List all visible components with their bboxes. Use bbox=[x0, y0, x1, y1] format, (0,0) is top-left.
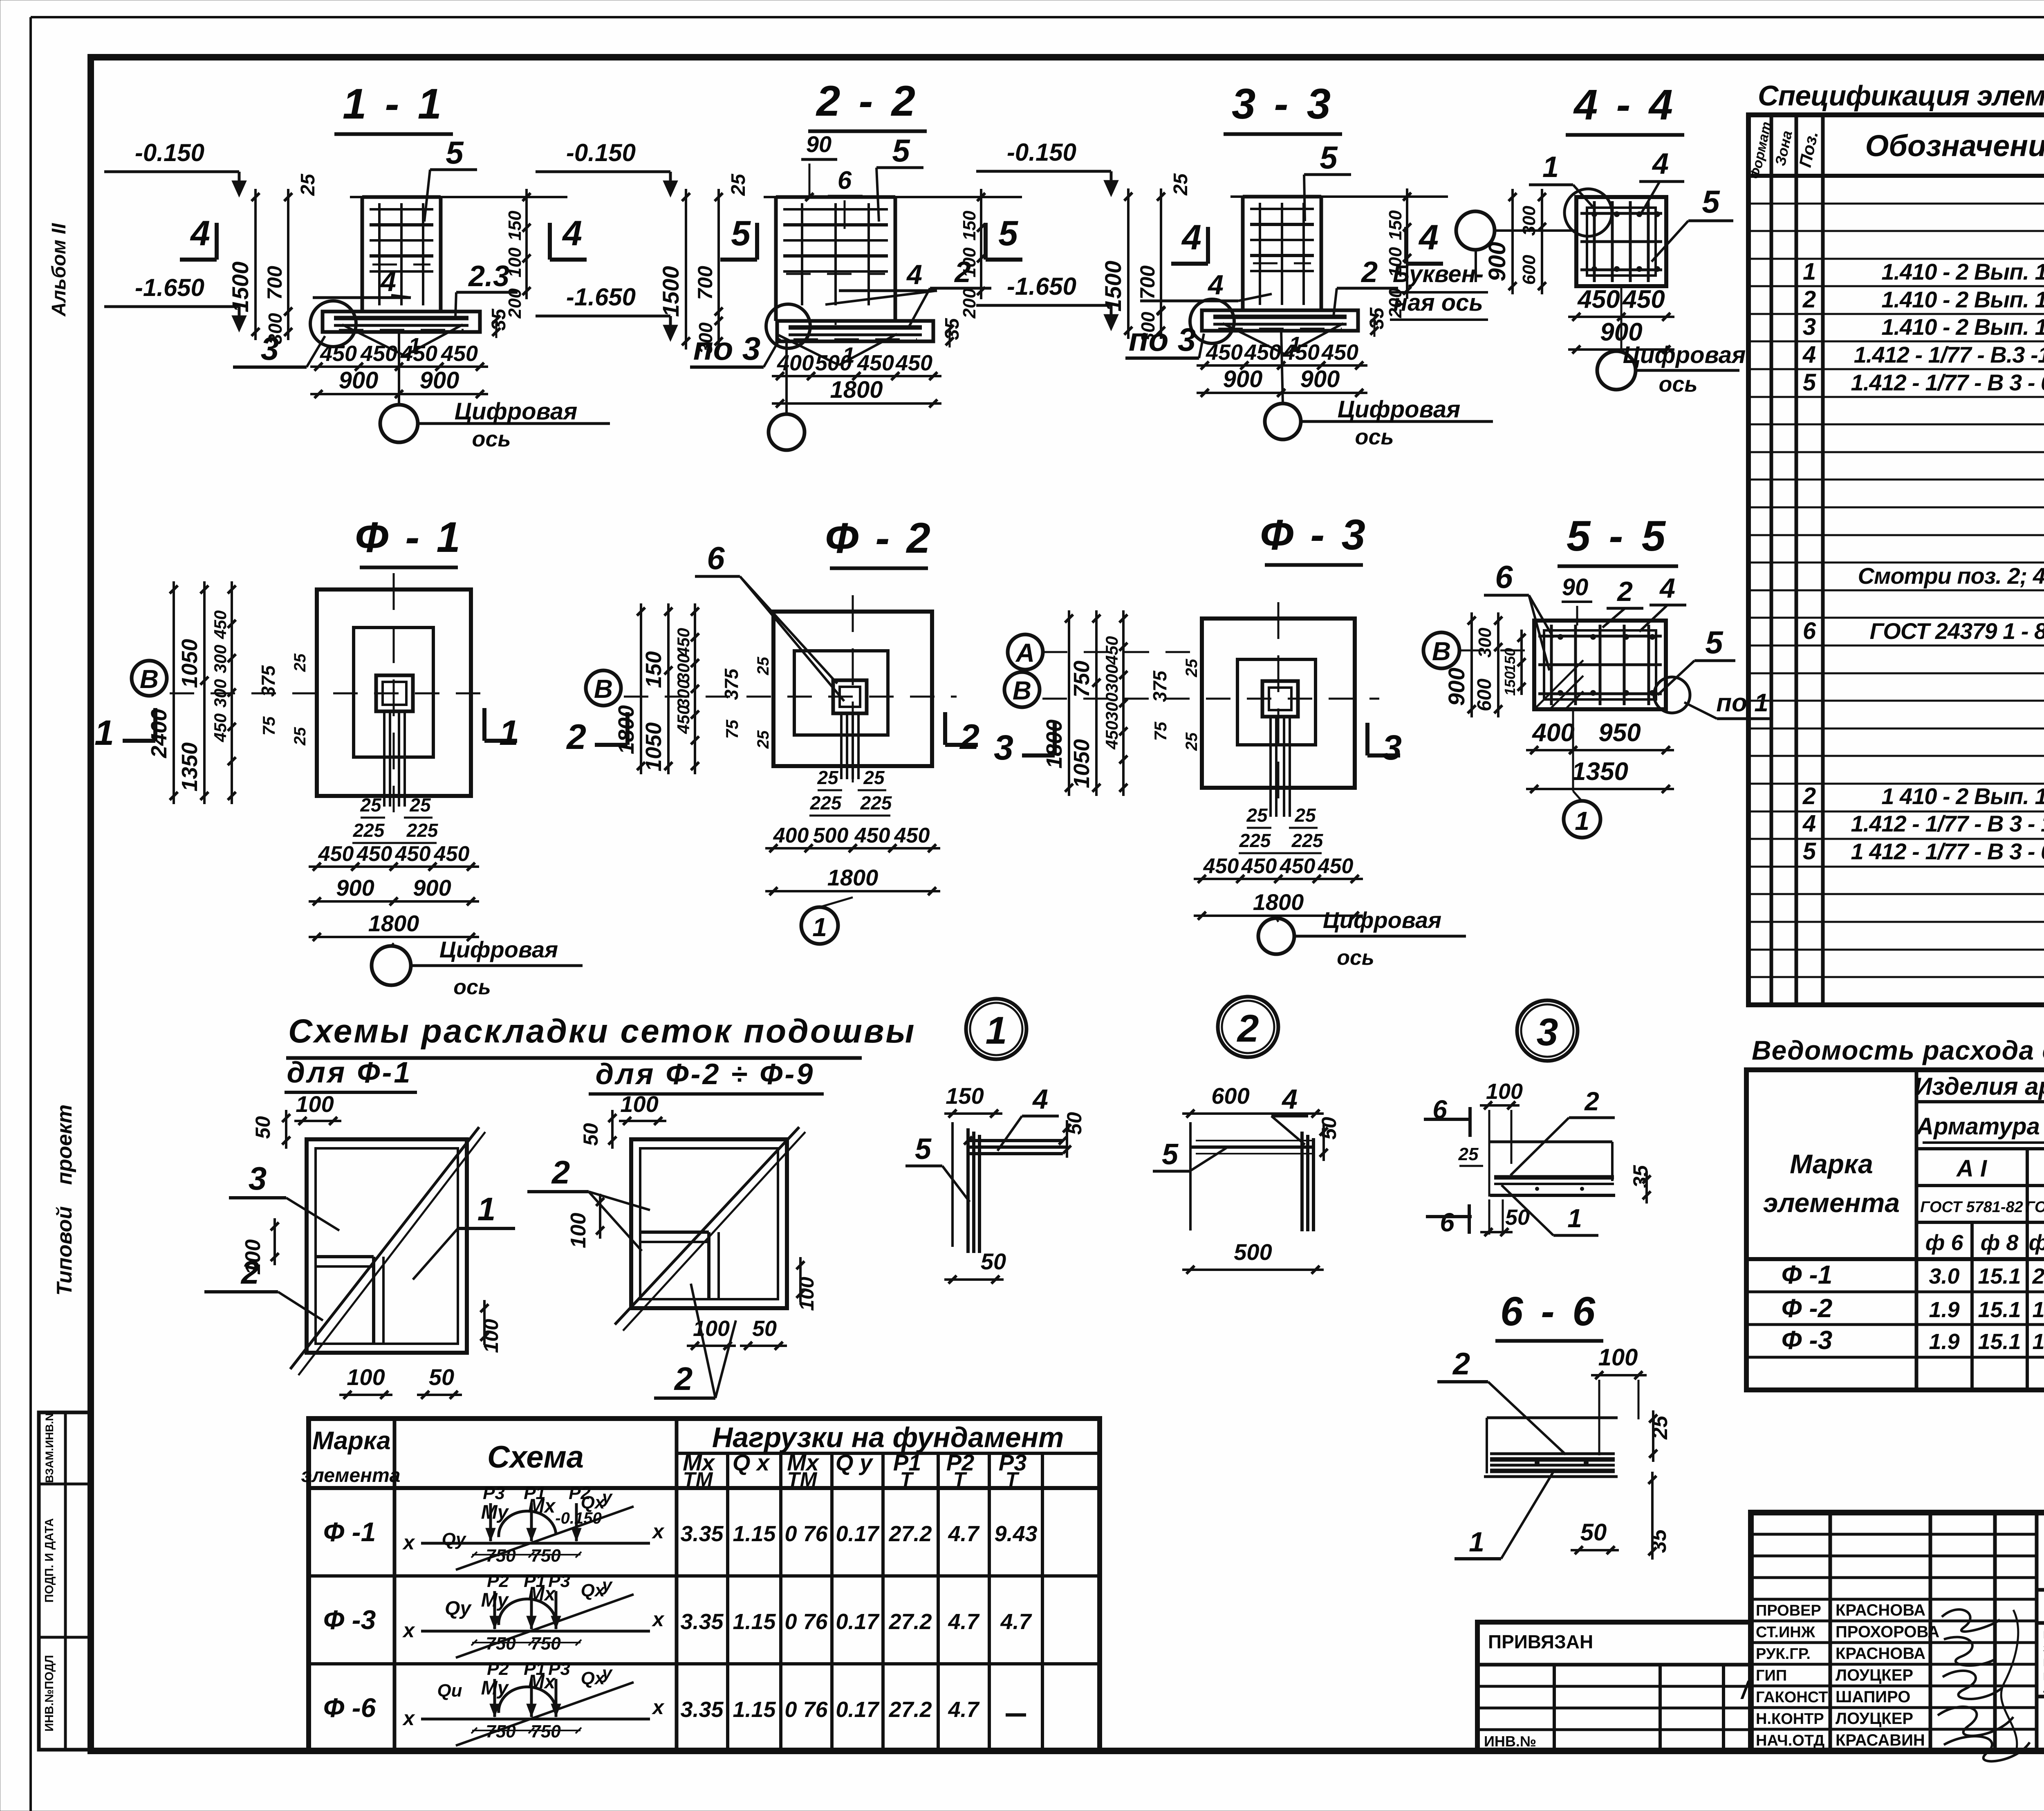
svg-text:900: 900 bbox=[1484, 242, 1511, 282]
svg-text:-1.650: -1.650 bbox=[1007, 273, 1076, 300]
svg-text:по 3: по 3 bbox=[1129, 321, 1196, 358]
svg-text:150: 150 bbox=[959, 211, 979, 241]
svg-text:x: x bbox=[402, 1707, 415, 1730]
heading: mesh layout schemes bbox=[285, 1013, 916, 1094]
svg-text:950: 950 bbox=[1598, 719, 1641, 747]
svg-text:50: 50 bbox=[579, 1123, 602, 1146]
svg-text:СТ.ИНЖ: СТ.ИНЖ bbox=[1756, 1624, 1815, 1641]
svg-text:50: 50 bbox=[752, 1316, 777, 1341]
svg-text:450: 450 bbox=[356, 842, 392, 866]
svg-text:P3: P3 bbox=[483, 1483, 505, 1503]
svg-text:ТМ: ТМ bbox=[787, 1468, 818, 1491]
steel table data rows bbox=[1782, 1260, 2044, 1355]
svg-text:0 76: 0 76 bbox=[784, 1609, 828, 1634]
svg-text:2: 2 bbox=[1360, 256, 1378, 289]
svg-text:375: 375 bbox=[721, 668, 742, 700]
svg-text:2: 2 bbox=[959, 717, 979, 757]
svg-text:90: 90 bbox=[1562, 574, 1589, 601]
detail 3 drawing bbox=[1424, 1079, 1652, 1237]
section view 5-5 (footing cage plan) bbox=[1423, 512, 1770, 838]
svg-text:4: 4 bbox=[190, 214, 210, 253]
svg-text:x: x bbox=[651, 1520, 665, 1543]
svg-text:А I: А I bbox=[1956, 1155, 1988, 1182]
svg-text:1 - 1: 1 - 1 bbox=[343, 80, 445, 128]
svg-text:6 - 6: 6 - 6 bbox=[1500, 1289, 1598, 1334]
svg-text:ось: ось bbox=[453, 975, 491, 999]
svg-text:300: 300 bbox=[211, 679, 230, 708]
svg-text:3.35: 3.35 bbox=[680, 1522, 724, 1546]
svg-text:x: x bbox=[402, 1619, 415, 1642]
svg-text:300: 300 bbox=[1102, 693, 1121, 721]
svg-text:5: 5 bbox=[446, 134, 464, 170]
svg-text:x: x bbox=[651, 1696, 665, 1719]
svg-text:ГОСТ 5781-82: ГОСТ 5781-82 bbox=[1920, 1199, 2023, 1216]
svg-text:375: 375 bbox=[258, 665, 279, 697]
svg-text:4: 4 bbox=[1652, 148, 1669, 180]
svg-text:6: 6 bbox=[1803, 618, 1816, 644]
svg-text:Буквен-: Буквен- bbox=[1393, 261, 1484, 287]
svg-text:My: My bbox=[481, 1677, 509, 1699]
svg-text:300: 300 bbox=[674, 679, 693, 708]
detail circle 3 bbox=[1517, 1000, 1578, 1061]
svg-text:4: 4 bbox=[1802, 341, 1816, 368]
svg-text:2: 2 bbox=[1802, 286, 1816, 313]
svg-text:1: 1 bbox=[1567, 1204, 1582, 1233]
svg-text:400: 400 bbox=[1531, 719, 1574, 747]
svg-text:100: 100 bbox=[620, 1091, 658, 1117]
title block outer bbox=[1751, 1513, 2044, 1751]
svg-text:5: 5 bbox=[1320, 139, 1338, 175]
svg-text:1: 1 bbox=[499, 713, 519, 753]
svg-text:100: 100 bbox=[296, 1091, 334, 1117]
detail 2 drawing bbox=[1153, 1083, 1340, 1274]
svg-text:15.1: 15.1 bbox=[1978, 1329, 2021, 1354]
svg-text:5 - 5: 5 - 5 bbox=[1567, 512, 1669, 560]
svg-text:Изделия арматурные: Изделия арматурные bbox=[1914, 1073, 2044, 1100]
svg-text:750: 750 bbox=[486, 1721, 516, 1742]
spec table rows bbox=[1802, 202, 2044, 947]
svg-text:600: 600 bbox=[1519, 255, 1539, 285]
svg-text:2: 2 bbox=[954, 256, 971, 289]
svg-text:4: 4 bbox=[562, 214, 582, 253]
svg-text:4: 4 bbox=[1281, 1084, 1298, 1115]
svg-text:1050: 1050 bbox=[641, 722, 666, 771]
svg-text:ось: ось bbox=[1337, 946, 1374, 970]
svg-text:1800: 1800 bbox=[827, 865, 879, 890]
svg-text:ГАКОНСТ: ГАКОНСТ bbox=[1756, 1689, 1828, 1706]
svg-text:y: y bbox=[601, 1663, 613, 1683]
svg-text:1.412 - 1/77 - В 3 - 020: 1.412 - 1/77 - В 3 - 020 bbox=[1851, 370, 2044, 395]
svg-text:1: 1 bbox=[986, 1009, 1007, 1052]
svg-text:А: А bbox=[1015, 638, 1035, 668]
svg-text:по 3: по 3 bbox=[693, 330, 760, 367]
svg-text:Ведомость расхода стали на: Ведомость расхода стали на элемент, кг bbox=[1752, 1035, 2044, 1065]
svg-text:10.8: 10.8 bbox=[2032, 1298, 2044, 1322]
svg-text:450: 450 bbox=[434, 842, 470, 866]
svg-text:35: 35 bbox=[1647, 1529, 1671, 1553]
svg-text:2: 2 bbox=[240, 1254, 260, 1291]
section view 2-2 bbox=[536, 77, 1022, 450]
svg-text:1800: 1800 bbox=[368, 910, 419, 936]
title block right cells bbox=[2037, 1590, 2044, 1751]
svg-text:225: 225 bbox=[810, 792, 842, 814]
svg-text:400: 400 bbox=[777, 351, 814, 375]
svg-text:450: 450 bbox=[318, 842, 354, 866]
svg-text:100: 100 bbox=[1598, 1344, 1638, 1371]
svg-text:25: 25 bbox=[297, 173, 319, 196]
svg-text:ф 6: ф 6 bbox=[1925, 1230, 1964, 1255]
svg-text:ЛОУЦКЕР: ЛОУЦКЕР bbox=[1836, 1710, 1913, 1728]
svg-text:5: 5 bbox=[731, 214, 751, 253]
svg-text:9.43: 9.43 bbox=[994, 1522, 1037, 1546]
svg-text:Q y: Q y bbox=[836, 1450, 874, 1475]
svg-text:27.2: 27.2 bbox=[888, 1522, 932, 1546]
svg-text:ИНВ.№: ИНВ.№ bbox=[1484, 1733, 1536, 1750]
svg-text:0.17: 0.17 bbox=[836, 1609, 880, 1634]
svg-text:450: 450 bbox=[1102, 636, 1121, 665]
signatures squiggle bbox=[1938, 1609, 2030, 1761]
svg-text:300: 300 bbox=[1475, 628, 1495, 658]
svg-text:Т: Т bbox=[953, 1468, 968, 1491]
svg-text:ТМ: ТМ bbox=[683, 1468, 713, 1491]
svg-text:3: 3 bbox=[261, 330, 279, 367]
svg-text:450: 450 bbox=[1318, 854, 1354, 878]
svg-text:Mx: Mx bbox=[528, 1583, 556, 1605]
svg-text:10 8: 10 8 bbox=[2032, 1329, 2044, 1354]
svg-text:Арматура класса: Арматура класса bbox=[1916, 1113, 2044, 1140]
svg-text:450: 450 bbox=[674, 705, 693, 734]
svg-text:500: 500 bbox=[815, 351, 852, 375]
svg-text:Т: Т bbox=[1006, 1468, 1020, 1491]
svg-text:1050: 1050 bbox=[1069, 739, 1094, 788]
svg-text:600: 600 bbox=[1211, 1083, 1249, 1109]
section view 3-3 bbox=[976, 80, 1493, 449]
svg-text:900: 900 bbox=[1300, 366, 1340, 392]
svg-text:450: 450 bbox=[1206, 340, 1243, 365]
svg-text:My: My bbox=[481, 1589, 509, 1611]
svg-text:2: 2 bbox=[566, 717, 586, 757]
svg-text:6: 6 bbox=[1440, 1208, 1455, 1237]
svg-text:для Ф-2 ÷ Ф-9: для Ф-2 ÷ Ф-9 bbox=[596, 1058, 815, 1091]
spec table grid bbox=[1748, 115, 2044, 1005]
svg-text:3: 3 bbox=[249, 1160, 267, 1197]
svg-text:по 1: по 1 bbox=[1716, 689, 1768, 717]
plan view F-2 bbox=[566, 514, 979, 944]
svg-text:6: 6 bbox=[707, 540, 725, 576]
svg-text:y: y bbox=[601, 1575, 613, 1595]
leader 6 to F-2 bolts bbox=[695, 540, 844, 701]
title block staff grid bbox=[1751, 1513, 2037, 1751]
svg-text:700: 700 bbox=[694, 266, 717, 300]
svg-text:2 - 2: 2 - 2 bbox=[816, 77, 919, 125]
svg-text:3 - 3: 3 - 3 bbox=[1232, 80, 1334, 128]
svg-text:450: 450 bbox=[1577, 285, 1620, 314]
svg-text:1.15: 1.15 bbox=[733, 1697, 776, 1722]
svg-text:5: 5 bbox=[1803, 369, 1816, 396]
svg-text:Марка: Марка bbox=[1790, 1149, 1873, 1179]
svg-text:КРАСАВИН: КРАСАВИН bbox=[1836, 1731, 1925, 1749]
title block texts bbox=[2043, 1533, 2044, 1750]
svg-text:1.410 - 2 Вып. 1: 1.410 - 2 Вып. 1 bbox=[1881, 259, 2044, 285]
svg-text:1: 1 bbox=[1803, 258, 1816, 285]
svg-text:4: 4 bbox=[380, 266, 396, 297]
svg-text:НАЧ.ОТД: НАЧ.ОТД bbox=[1756, 1732, 1824, 1749]
svg-text:25: 25 bbox=[291, 727, 309, 746]
svg-text:ВЗАМ.ИНВ.N: ВЗАМ.ИНВ.N bbox=[43, 1413, 56, 1483]
svg-text:1350: 1350 bbox=[1572, 758, 1628, 786]
svg-text:1: 1 bbox=[812, 912, 827, 942]
svg-text:75: 75 bbox=[722, 719, 742, 739]
svg-text:15.1: 15.1 bbox=[1978, 1298, 2021, 1322]
svg-text:My: My bbox=[481, 1502, 509, 1523]
svg-text:27.2: 27.2 bbox=[888, 1697, 932, 1722]
svg-text:Ф -1: Ф -1 bbox=[1782, 1260, 1833, 1289]
svg-text:150: 150 bbox=[641, 651, 666, 688]
svg-text:Схема: Схема bbox=[487, 1440, 584, 1475]
svg-text:0.17: 0.17 bbox=[836, 1697, 880, 1722]
svg-text:225: 225 bbox=[406, 820, 439, 841]
svg-text:Ф -3: Ф -3 bbox=[323, 1605, 376, 1635]
svg-text:ф 10: ф 10 bbox=[2029, 1230, 2044, 1255]
svg-text:-0.150: -0.150 bbox=[566, 139, 636, 166]
svg-text:ПРИВЯЗАН: ПРИВЯЗАН bbox=[1488, 1631, 1593, 1652]
svg-text:Нагрузки на фундамент: Нагрузки на фундамент bbox=[712, 1421, 1064, 1453]
svg-text:1.9: 1.9 bbox=[1929, 1329, 1959, 1354]
section view 1-1 bbox=[104, 80, 610, 451]
svg-text:Ф - 2: Ф - 2 bbox=[825, 514, 933, 562]
svg-text:4: 4 bbox=[1802, 810, 1816, 837]
svg-text:В: В bbox=[594, 674, 613, 704]
svg-text:ось: ось bbox=[472, 427, 511, 451]
svg-text:2.3: 2.3 bbox=[468, 260, 509, 293]
svg-text:25: 25 bbox=[1183, 732, 1201, 751]
svg-text:1500: 1500 bbox=[1100, 261, 1126, 312]
svg-text:100: 100 bbox=[1486, 1079, 1523, 1104]
svg-text:50: 50 bbox=[251, 1116, 274, 1139]
svg-text:ПРОВЕР: ПРОВЕР bbox=[1756, 1602, 1821, 1619]
svg-text:150: 150 bbox=[1385, 210, 1405, 240]
svg-text:750: 750 bbox=[531, 1634, 561, 1654]
svg-text:Mx: Mx bbox=[528, 1671, 556, 1693]
svg-text:750: 750 bbox=[531, 1721, 561, 1742]
svg-text:4: 4 bbox=[1181, 218, 1201, 257]
svg-text:450: 450 bbox=[1280, 854, 1316, 878]
svg-text:25: 25 bbox=[1294, 805, 1316, 826]
svg-text:150: 150 bbox=[946, 1083, 984, 1109]
svg-text:-0.150: -0.150 bbox=[1007, 139, 1076, 166]
svg-text:ось: ось bbox=[1355, 425, 1394, 449]
svg-text:200: 200 bbox=[959, 288, 979, 319]
svg-text:450: 450 bbox=[1321, 340, 1358, 365]
svg-text:375: 375 bbox=[1149, 670, 1170, 702]
svg-text:5: 5 bbox=[1162, 1138, 1179, 1171]
svg-text:Альбом II: Альбом II bbox=[48, 223, 70, 317]
svg-text:1050: 1050 bbox=[177, 639, 202, 688]
svg-text:ЛОУЦКЕР: ЛОУЦКЕР bbox=[1836, 1666, 1913, 1684]
svg-text:5: 5 bbox=[998, 214, 1018, 253]
svg-text:150: 150 bbox=[505, 211, 525, 241]
spec table header text bbox=[1747, 120, 2044, 180]
svg-text:3.35: 3.35 bbox=[680, 1697, 724, 1722]
svg-text:Цифровая: Цифровая bbox=[1338, 396, 1461, 423]
svg-text:ось: ось bbox=[1659, 372, 1697, 397]
svg-text:450: 450 bbox=[854, 824, 890, 847]
svg-text:Qy: Qy bbox=[445, 1598, 472, 1619]
svg-text:2: 2 bbox=[1802, 783, 1816, 809]
labels 90 and 6 on view 2-2 bbox=[801, 131, 863, 229]
svg-text:300: 300 bbox=[674, 654, 693, 682]
svg-text:4.7: 4.7 bbox=[948, 1522, 980, 1546]
svg-text:Н.КОНТР: Н.КОНТР bbox=[1756, 1710, 1824, 1728]
svg-text:50: 50 bbox=[981, 1248, 1006, 1274]
svg-text:300: 300 bbox=[1519, 206, 1539, 236]
svg-text:ПРОХОРОВА: ПРОХОРОВА bbox=[1836, 1623, 1939, 1641]
svg-text:4: 4 bbox=[1659, 573, 1675, 604]
svg-text:27.2: 27.2 bbox=[888, 1609, 932, 1634]
svg-text:5: 5 bbox=[1702, 184, 1720, 220]
svg-text:450: 450 bbox=[894, 824, 930, 847]
svg-text:1.15: 1.15 bbox=[733, 1609, 776, 1634]
svg-text:1: 1 bbox=[94, 713, 114, 753]
svg-text:1800: 1800 bbox=[1253, 889, 1304, 915]
svg-text:Цифровая: Цифровая bbox=[455, 398, 578, 425]
svg-text:700: 700 bbox=[263, 266, 286, 300]
svg-text:P2: P2 bbox=[487, 1571, 509, 1591]
svg-text:450: 450 bbox=[1244, 340, 1281, 365]
svg-text:900: 900 bbox=[413, 875, 451, 901]
svg-text:100: 100 bbox=[347, 1364, 385, 1390]
svg-text:25: 25 bbox=[1183, 659, 1201, 677]
svg-text:25: 25 bbox=[291, 653, 309, 672]
svg-text:ШАПИРО: ШАПИРО bbox=[1836, 1688, 1910, 1706]
svg-text:750: 750 bbox=[486, 1546, 516, 1566]
svg-text:35: 35 bbox=[941, 318, 963, 340]
steel table title bbox=[1752, 1035, 2044, 1065]
svg-text:В: В bbox=[140, 664, 159, 694]
svg-text:25: 25 bbox=[817, 767, 839, 788]
svg-text:1350: 1350 bbox=[177, 742, 202, 791]
svg-text:Ф -6: Ф -6 bbox=[323, 1692, 377, 1723]
svg-text:25: 25 bbox=[1458, 1144, 1479, 1164]
svg-text:1.9: 1.9 bbox=[1929, 1298, 1959, 1322]
svg-text:900: 900 bbox=[1443, 668, 1469, 706]
svg-text:Смотри поз. 2; 4: 5: Смотри поз. 2; 4: 5 bbox=[1858, 563, 2044, 589]
svg-text:300: 300 bbox=[1102, 664, 1121, 693]
svg-text:750: 750 bbox=[531, 1546, 561, 1566]
svg-text:Qy: Qy bbox=[442, 1529, 467, 1549]
svg-text:450: 450 bbox=[400, 341, 437, 366]
svg-text:1.15: 1.15 bbox=[733, 1522, 776, 1546]
svg-text:проект: проект bbox=[53, 1105, 76, 1185]
svg-text:225: 225 bbox=[1239, 830, 1271, 851]
svg-text:0.17: 0.17 bbox=[836, 1522, 880, 1546]
svg-text:75: 75 bbox=[1151, 722, 1170, 741]
svg-text:100: 100 bbox=[567, 1213, 590, 1248]
svg-text:2: 2 bbox=[674, 1360, 693, 1397]
svg-text:25: 25 bbox=[409, 794, 431, 816]
svg-text:Т: Т bbox=[900, 1468, 914, 1491]
margin label: Tipovoy proekt bbox=[53, 1105, 76, 1296]
svg-text:450: 450 bbox=[674, 628, 693, 657]
svg-text:5: 5 bbox=[1803, 838, 1816, 865]
svg-text:25: 25 bbox=[1246, 805, 1268, 826]
svg-text:Ф - 3: Ф - 3 bbox=[1260, 511, 1368, 559]
svg-text:50: 50 bbox=[1580, 1519, 1607, 1546]
svg-text:Цифровая: Цифровая bbox=[1623, 342, 1746, 368]
svg-text:750: 750 bbox=[1069, 661, 1094, 697]
svg-text:450: 450 bbox=[395, 842, 431, 866]
svg-text:35: 35 bbox=[1366, 307, 1388, 329]
svg-text:6: 6 bbox=[838, 166, 852, 195]
loads table grid bbox=[309, 1419, 1100, 1751]
svg-text:25: 25 bbox=[754, 657, 772, 675]
svg-text:450: 450 bbox=[441, 341, 478, 366]
section view 6-6 bbox=[1437, 1289, 1672, 1560]
svg-text:ГИП: ГИП bbox=[1756, 1667, 1787, 1684]
svg-text:1800: 1800 bbox=[830, 377, 883, 403]
svg-text:1.410 - 2 Вып. 1: 1.410 - 2 Вып. 1 bbox=[1881, 287, 2044, 312]
svg-text:Q x: Q x bbox=[733, 1450, 771, 1475]
svg-text:25: 25 bbox=[1170, 173, 1192, 196]
mesh layout scheme for F-1 bbox=[204, 1091, 515, 1399]
svg-text:450: 450 bbox=[1241, 854, 1277, 878]
title block staff names bbox=[1740, 1601, 1940, 1749]
svg-text:750: 750 bbox=[486, 1634, 516, 1654]
svg-text:для Ф-1: для Ф-1 bbox=[287, 1056, 412, 1089]
svg-text:КРАСНОВА: КРАСНОВА bbox=[1836, 1645, 1925, 1663]
svg-text:-0.150: -0.150 bbox=[555, 1509, 601, 1527]
steel table grid bbox=[1746, 1070, 2044, 1390]
svg-text:4.7: 4.7 bbox=[948, 1609, 980, 1634]
loads table header bbox=[301, 1421, 1064, 1491]
svg-text:900: 900 bbox=[420, 367, 459, 394]
svg-text:ПОДП. И ДАТА: ПОДП. И ДАТА bbox=[43, 1518, 56, 1603]
svg-text:Ф -1: Ф -1 bbox=[323, 1517, 376, 1547]
svg-text:2: 2 bbox=[551, 1154, 570, 1190]
svg-text:Типовой: Типовой bbox=[53, 1206, 76, 1296]
svg-text:Ф -3: Ф -3 bbox=[1782, 1325, 1833, 1355]
svg-text:5: 5 bbox=[915, 1133, 932, 1165]
svg-text:5: 5 bbox=[892, 132, 910, 168]
svg-text:4.7: 4.7 bbox=[948, 1697, 980, 1722]
loads table data rows bbox=[323, 1483, 1038, 1746]
plan view F-3 bbox=[994, 511, 1466, 970]
margin bottom small table bbox=[39, 1412, 92, 1750]
svg-text:1: 1 bbox=[1542, 151, 1559, 184]
svg-text:1: 1 bbox=[477, 1191, 496, 1227]
svg-text:4: 4 bbox=[1032, 1084, 1048, 1115]
svg-text:Цифровая: Цифровая bbox=[1323, 907, 1441, 933]
svg-text:600: 600 bbox=[1474, 679, 1495, 711]
svg-text:x: x bbox=[651, 1608, 665, 1631]
steel table header text bbox=[1763, 1073, 2044, 1260]
svg-text:450: 450 bbox=[211, 610, 230, 639]
svg-text:25: 25 bbox=[754, 730, 772, 749]
svg-text:4 - 4: 4 - 4 bbox=[1573, 81, 1676, 129]
svg-text:225: 225 bbox=[1291, 830, 1324, 851]
svg-text:1.412 - 1/77 - В 3 - 100: 1.412 - 1/77 - В 3 - 100 bbox=[1851, 811, 2044, 836]
svg-text:ф 8: ф 8 bbox=[1981, 1230, 2019, 1255]
svg-text:2: 2 bbox=[1584, 1087, 1599, 1116]
svg-text:450: 450 bbox=[857, 351, 894, 375]
svg-text:Ф - 1: Ф - 1 bbox=[355, 513, 463, 561]
svg-text:4: 4 bbox=[906, 259, 922, 290]
svg-text:500: 500 bbox=[813, 824, 849, 847]
svg-text:Ф -2: Ф -2 bbox=[1782, 1293, 1833, 1323]
svg-text:1 410 - 2 Вып. 1: 1 410 - 2 Вып. 1 bbox=[1881, 783, 2044, 809]
svg-text:450: 450 bbox=[360, 341, 397, 366]
spec table title bbox=[1758, 80, 2044, 112]
